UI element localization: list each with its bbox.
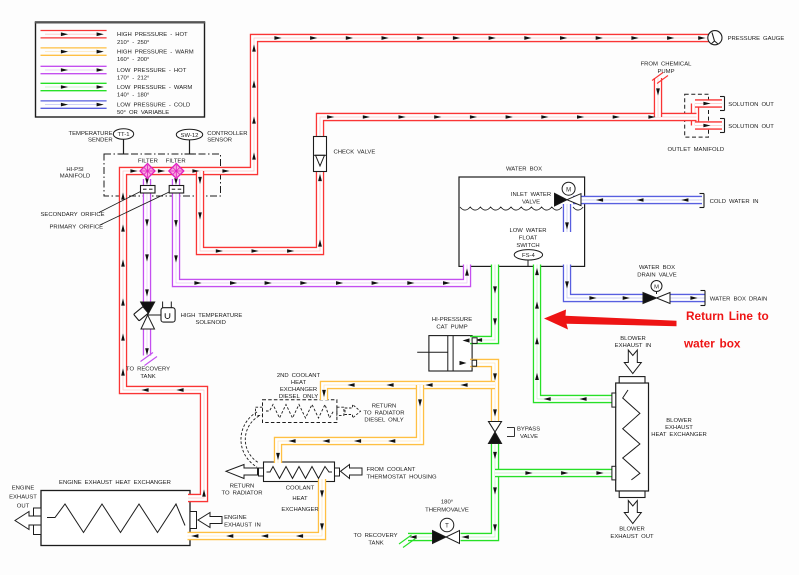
svg-text:WATER BOX: WATER BOX: [639, 265, 675, 271]
svg-text:TO RECOVERY: TO RECOVERY: [126, 367, 170, 373]
svg-text:SOLENOID: SOLENOID: [195, 320, 225, 326]
svg-text:WATER BOX DRAIN: WATER BOX DRAIN: [710, 297, 767, 303]
svg-text:TO RADIATOR: TO RADIATOR: [363, 411, 404, 417]
svg-text:FILTER: FILTER: [138, 158, 158, 164]
svg-text:VALVE: VALVE: [520, 434, 538, 440]
svg-text:T: T: [445, 523, 449, 529]
svg-text:THERMOVALVE: THERMOVALVE: [425, 508, 469, 514]
svg-text:OUTLET MANIFOLD: OUTLET MANIFOLD: [667, 147, 724, 153]
svg-text:170° - 212°: 170° - 212°: [117, 76, 149, 82]
svg-text:HEAT EXCHANGER: HEAT EXCHANGER: [651, 432, 707, 438]
svg-text:FILTER: FILTER: [166, 158, 186, 164]
svg-text:ENGINE: ENGINE: [12, 486, 35, 492]
svg-text:INLET WATER: INLET WATER: [511, 192, 551, 198]
svg-text:EXHAUST OUT: EXHAUST OUT: [610, 534, 654, 540]
svg-text:EXHAUST: EXHAUST: [9, 495, 37, 501]
svg-text:EXHAUST IN: EXHAUST IN: [615, 343, 652, 349]
svg-text:EXCHANGER: EXCHANGER: [281, 507, 318, 513]
svg-text:OUT: OUT: [17, 504, 30, 510]
svg-text:MANIFOLD: MANIFOLD: [60, 174, 90, 180]
svg-text:HIGH PRESSURE - HOT: HIGH PRESSURE - HOT: [117, 32, 188, 38]
svg-text:FLOAT: FLOAT: [519, 235, 538, 241]
svg-text:M: M: [654, 284, 659, 290]
svg-text:SENDER: SENDER: [88, 138, 113, 144]
svg-text:BLOWER: BLOWER: [619, 527, 645, 533]
svg-text:CONTROLLER: CONTROLLER: [207, 131, 247, 137]
svg-text:TANK: TANK: [368, 541, 383, 547]
svg-text:LOW WATER: LOW WATER: [509, 228, 546, 234]
svg-text:ENGINE EXHAUST HEAT EXCHANGER: ENGINE EXHAUST HEAT EXCHANGER: [59, 480, 171, 486]
svg-text:TT-1: TT-1: [117, 132, 129, 138]
svg-text:TO RADIATOR: TO RADIATOR: [221, 491, 262, 497]
svg-text:TEMPERATURE: TEMPERATURE: [69, 131, 113, 137]
svg-text:BLOWER: BLOWER: [666, 418, 692, 424]
svg-text:2ND COOLANT: 2ND COOLANT: [277, 373, 321, 379]
svg-text:DRAIN VALVE: DRAIN VALVE: [637, 273, 677, 279]
svg-text:EXCHANGER: EXCHANGER: [280, 387, 317, 393]
svg-text:THERMOSTAT HOUSING: THERMOSTAT HOUSING: [367, 475, 438, 481]
svg-text:EXHAUST IN: EXHAUST IN: [224, 523, 261, 529]
svg-text:HI-PSI: HI-PSI: [66, 167, 84, 173]
svg-text:ENGINE: ENGINE: [224, 515, 247, 521]
svg-text:BLOWER: BLOWER: [620, 336, 646, 342]
svg-text:TANK: TANK: [140, 374, 155, 380]
svg-text:HEAT: HEAT: [292, 496, 308, 502]
svg-text:TO RECOVERY: TO RECOVERY: [354, 533, 398, 539]
svg-text:CAT PUMP: CAT PUMP: [436, 324, 467, 330]
svg-text:SWITCH: SWITCH: [516, 243, 539, 249]
svg-text:PRESSURE GAUGE: PRESSURE GAUGE: [728, 36, 785, 42]
svg-text:PRIMARY ORIFICE: PRIMARY ORIFICE: [50, 224, 104, 230]
svg-text:COLD WATER IN: COLD WATER IN: [710, 199, 759, 205]
svg-text:HIGH TEMPERATURE: HIGH TEMPERATURE: [181, 313, 243, 319]
svg-text:HEAT: HEAT: [291, 380, 307, 386]
svg-text:LOW PRESSURE - COLD: LOW PRESSURE - COLD: [117, 102, 190, 108]
svg-text:Return Line to: Return Line to: [686, 309, 769, 323]
svg-text:180°: 180°: [441, 500, 453, 506]
svg-text:LOW PRESSURE - WARM: LOW PRESSURE - WARM: [117, 85, 192, 91]
svg-text:LOW PRESSURE - HOT: LOW PRESSURE - HOT: [117, 68, 187, 74]
svg-text:140° - 180°: 140° - 180°: [117, 93, 149, 99]
svg-text:RETURN: RETURN: [372, 404, 397, 410]
svg-text:50° OR VARIABLE: 50° OR VARIABLE: [117, 110, 169, 116]
svg-text:FROM CHEMICAL: FROM CHEMICAL: [641, 62, 693, 68]
svg-text:SECONDARY ORIFICE: SECONDARY ORIFICE: [41, 212, 105, 218]
svg-text:HIGH PRESSURE - WARM: HIGH PRESSURE - WARM: [117, 49, 194, 55]
svg-text:SENSOR: SENSOR: [207, 138, 232, 144]
svg-text:VALVE: VALVE: [522, 199, 540, 205]
svg-text:WATER BOX: WATER BOX: [506, 166, 542, 172]
svg-text:HI-PRESSURE: HI-PRESSURE: [432, 317, 472, 323]
svg-text:210° - 250°: 210° - 250°: [117, 40, 149, 46]
svg-text:water box: water box: [683, 337, 741, 351]
svg-text:DIESEL ONLY: DIESEL ONLY: [364, 418, 403, 424]
svg-text:SOLUTION OUT: SOLUTION OUT: [728, 102, 774, 108]
svg-text:DIESEL ONLY: DIESEL ONLY: [279, 394, 318, 400]
svg-text:SW-12: SW-12: [181, 133, 199, 139]
svg-text:BYPASS: BYPASS: [517, 427, 540, 433]
svg-text:SOLUTION OUT: SOLUTION OUT: [728, 124, 774, 130]
svg-text:FS-4: FS-4: [522, 253, 535, 259]
svg-text:160° - 200°: 160° - 200°: [117, 57, 149, 63]
svg-text:CHECK VALVE: CHECK VALVE: [334, 150, 376, 156]
svg-text:EXHAUST: EXHAUST: [665, 425, 693, 431]
svg-text:FROM COOLANT: FROM COOLANT: [367, 467, 416, 473]
svg-text:COOLANT: COOLANT: [286, 486, 315, 492]
svg-text:RETURN: RETURN: [230, 483, 255, 489]
svg-text:M: M: [566, 187, 571, 193]
